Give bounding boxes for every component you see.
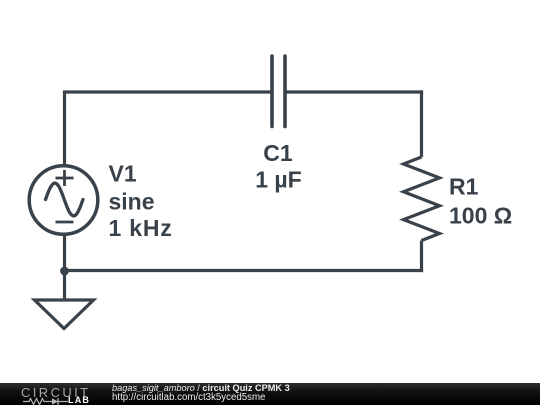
CircuitLab logo schematic glyph (resistor + diode wire) (23, 397, 69, 406)
wire: top-left vertical from V1 top to top rail (63, 92, 66, 165)
footer line 1: author / title (112, 384, 290, 394)
wire: right vertical from top rail to R1 top (420, 90, 423, 157)
capacitor C1 (272, 56, 285, 127)
wire: V1 bottom to junction (63, 235, 66, 273)
resistor R1 (404, 157, 440, 241)
svg-text:V1: V1 (109, 161, 137, 187)
ground (35, 300, 94, 329)
CircuitLab logo wordmark (21, 386, 91, 399)
wire: top rail right segment from C1 right plate (285, 90, 423, 93)
V1 sine waveform (46, 183, 84, 216)
CircuitLab logo LAB text (68, 396, 90, 405)
svg-text:sine: sine (109, 189, 155, 215)
footer line 2: url (112, 393, 265, 403)
wire: top rail left segment to C1 left plate (63, 90, 272, 93)
wire: bottom rail (65, 269, 424, 272)
svg-text:1 kHz: 1 kHz (109, 215, 173, 241)
label V1 value (109, 140, 513, 241)
voltage source V1 circle (29, 166, 98, 235)
svg-text:C1: C1 (263, 140, 293, 166)
footer bar (0, 383, 540, 405)
svg-text:100 Ω: 100 Ω (449, 203, 512, 229)
wire: junction to ground (63, 271, 66, 300)
svg-text:1 µF: 1 µF (255, 167, 301, 193)
junction node dot (60, 267, 69, 276)
V1 minus sign (56, 221, 74, 224)
V1 plus sign (56, 170, 74, 186)
wire: right vertical from R1 bottom to bottom rail (420, 241, 423, 273)
svg-text:R1: R1 (449, 174, 479, 200)
